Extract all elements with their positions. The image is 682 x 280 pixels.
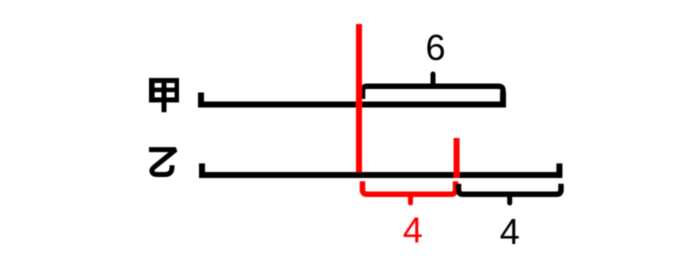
red divider line xyxy=(356,24,362,174)
svg-text:6: 6 xyxy=(425,27,445,68)
segment bar 甲 xyxy=(198,93,506,105)
red tick on 乙 xyxy=(454,138,460,178)
brace for 6 above 甲 xyxy=(363,74,504,104)
red brace for 4 below 乙 xyxy=(363,181,456,203)
svg-text:4: 4 xyxy=(500,211,520,252)
svg-text:4: 4 xyxy=(403,209,423,250)
black brace for 4 below 乙 xyxy=(459,184,562,203)
label 甲 xyxy=(149,78,179,112)
segment bar 乙 xyxy=(199,163,562,175)
label 乙 xyxy=(149,150,176,175)
